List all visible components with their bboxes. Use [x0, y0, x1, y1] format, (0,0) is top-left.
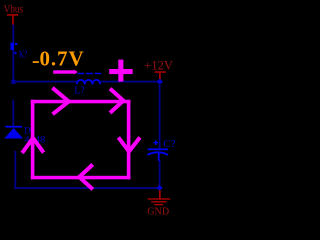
svg-text:GND: GND [147, 205, 169, 217]
svg-text:C?: C? [163, 139, 176, 150]
svg-text:L?: L? [74, 86, 85, 97]
wire inductor to node B [100, 81, 160, 83]
wire K? to node A [12, 50, 14, 82]
current loop highlight bottom wire [31, 176, 131, 180]
current loop highlight left wire [31, 100, 35, 180]
power symbol +12V [144, 58, 173, 80]
power symbol Vbus [4, 4, 24, 25]
svg-text:+12V: +12V [144, 58, 173, 72]
svg-text:K?: K? [19, 49, 28, 60]
label -0.7V [33, 61, 39, 63]
svg-text:Vbus: Vbus [4, 4, 24, 16]
current arrow down on right wire [118, 137, 139, 151]
polarity bar annotation [53, 70, 78, 75]
power symbol GND [147, 190, 170, 217]
current loop highlight top wire [31, 100, 131, 104]
wire node A to inductor [13, 81, 77, 83]
current arrow up on left wire [22, 138, 43, 153]
wire diode to bottom net [14, 151, 16, 188]
node C junction [156, 185, 162, 191]
ferrite bead K1 body [11, 43, 18, 55]
polarity plus annotation [109, 60, 132, 82]
inductor L1 [77, 73, 101, 84]
wire capacitor to node C [159, 161, 161, 189]
capacitor C1 [147, 140, 168, 161]
wire Vbus net to diode [12, 100, 14, 126]
current loop highlight right wire [127, 100, 131, 180]
svg-text:0.7V: 0.7V [40, 47, 85, 71]
current arrow left on bottom wire [79, 165, 93, 190]
current arrow right on top wire 2 [110, 89, 123, 113]
node B junction [157, 79, 163, 85]
wire node B to capacitor [159, 84, 161, 148]
current arrow right on top wire [52, 88, 68, 114]
diode D1 [4, 126, 23, 139]
node A junction [11, 80, 15, 84]
wire bottom net [14, 187, 160, 189]
wire Vbus to K? [12, 25, 14, 43]
